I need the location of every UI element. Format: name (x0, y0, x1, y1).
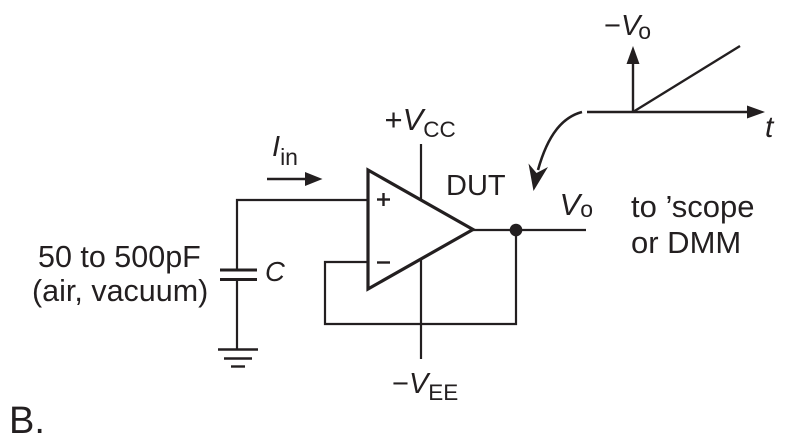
ground (218, 350, 258, 367)
svg-text:(air, vacuum): (air, vacuum) (32, 274, 208, 308)
svg-text:or DMM: or DMM (631, 225, 741, 260)
svg-text:50 to 500pF: 50 to 500pF (38, 240, 201, 274)
Vcc supply wire (420, 144, 422, 201)
minus input symbol (377, 261, 390, 263)
graph ramp trace (633, 46, 740, 112)
graph horizontal axis (t) (587, 106, 765, 119)
wire: output (473, 229, 586, 231)
svg-text:−Vo: −Vo (604, 10, 651, 44)
svg-text:C: C (265, 256, 285, 287)
capacitor C top plate (220, 269, 257, 272)
svg-text:Vo: Vo (560, 187, 593, 222)
graph vertical axis (-Vo) (627, 46, 640, 112)
wire: capacitor bottom lead to ground (236, 281, 238, 349)
svg-text:B.: B. (9, 400, 45, 442)
wire: input from capacitor top to op-amp + input (237, 200, 368, 269)
current arrow Iin (267, 172, 323, 186)
plus input symbol (377, 193, 390, 206)
svg-text:−VEE: −VEE (392, 368, 458, 405)
svg-text:Iin: Iin (272, 131, 298, 170)
capacitor C bottom plate (220, 278, 257, 281)
curved arrow from graph to output (529, 112, 583, 191)
op-amp U1 (DUT) triangle (368, 170, 473, 289)
node: output junction dot (510, 224, 523, 237)
svg-text:+VCC: +VCC (385, 102, 456, 142)
svg-text:t: t (765, 111, 775, 144)
svg-text:to ’scope: to ’scope (631, 189, 755, 224)
svg-text:DUT: DUT (446, 170, 506, 202)
Vee supply wire (420, 258, 422, 359)
wire: feedback loop from output node to inverting input (325, 230, 516, 324)
